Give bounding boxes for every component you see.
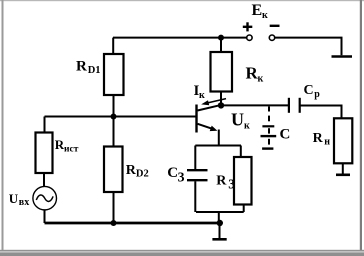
svg-text:ист: ист	[64, 144, 79, 154]
svg-text:вх: вх	[19, 197, 29, 208]
svg-text:R: R	[313, 131, 324, 146]
svg-text:R: R	[216, 174, 227, 189]
svg-text:U: U	[231, 110, 244, 130]
svg-text:D2: D2	[136, 168, 149, 179]
svg-text:3: 3	[228, 177, 235, 192]
svg-text:R: R	[76, 58, 87, 74]
svg-text:C: C	[304, 83, 314, 98]
svg-text:U: U	[9, 191, 19, 206]
svg-text:к: к	[258, 74, 264, 85]
svg-text:C: C	[280, 127, 291, 143]
svg-text:н: н	[324, 136, 330, 147]
svg-text:к: к	[244, 120, 250, 131]
svg-text:E: E	[252, 2, 263, 19]
svg-text:3: 3	[178, 169, 185, 184]
svg-text:к: к	[262, 10, 268, 21]
svg-text:р: р	[314, 89, 320, 100]
svg-text:D1: D1	[88, 65, 101, 76]
svg-text:C: C	[167, 165, 178, 181]
svg-text:к: к	[199, 90, 205, 101]
